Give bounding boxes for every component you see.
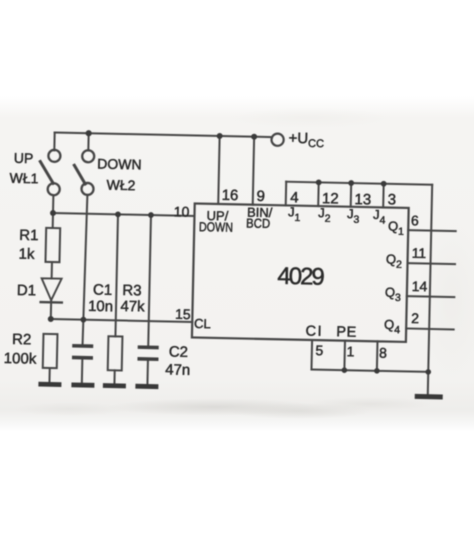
svg-text:9: 9 xyxy=(256,188,265,205)
op-amp U1 IC 4029 body xyxy=(192,203,409,341)
wire pin12 stub xyxy=(317,182,319,206)
switch WL2 bottom contact xyxy=(81,183,93,195)
switch WL2 top contact xyxy=(82,150,94,162)
ground R2 xyxy=(38,382,61,387)
wire DOWN switch to rail xyxy=(87,133,89,150)
wire Q4 output xyxy=(406,327,453,330)
node D1-CL junction xyxy=(48,316,54,322)
svg-text:PE: PE xyxy=(336,324,357,340)
wire bottom rail xyxy=(311,369,428,371)
switch WL1 lever xyxy=(40,162,54,184)
wire C2 to ground xyxy=(146,361,148,384)
svg-text:BCD: BCD xyxy=(246,215,270,230)
svg-text:13: 13 xyxy=(354,191,371,208)
node pin13-Jbar junction xyxy=(348,180,354,186)
wire rail to C2 xyxy=(148,215,151,345)
node C2-rail junction xyxy=(148,212,154,218)
svg-text:C2: C2 xyxy=(169,343,189,360)
wire pin8 stub xyxy=(376,341,379,370)
diode D1 triangle xyxy=(41,278,61,300)
svg-text:5: 5 xyxy=(315,342,323,358)
wire Q2 output xyxy=(408,262,455,265)
svg-text:4029: 4029 xyxy=(277,263,325,291)
capacitor C2 plates xyxy=(137,345,158,361)
node pin1-rail junction xyxy=(342,367,348,373)
wire pin9 to rail xyxy=(253,137,254,205)
wire top supply rail xyxy=(55,133,272,138)
svg-text:DOWN: DOWN xyxy=(97,156,142,173)
svg-text:WŁ2: WŁ2 xyxy=(106,177,135,194)
svg-text:J3: J3 xyxy=(347,206,360,226)
ground C1 xyxy=(71,382,94,387)
wire pin4 stub xyxy=(285,182,287,206)
capacitor C1 plates xyxy=(72,344,93,360)
svg-text:R3: R3 xyxy=(122,282,142,299)
wire pin13 stub xyxy=(350,183,352,207)
svg-text:10: 10 xyxy=(174,203,190,219)
ground right xyxy=(415,394,443,400)
wire D1 to CL rail xyxy=(50,301,52,319)
svg-text:+UCC: +UCC xyxy=(288,130,324,150)
svg-text:Q1: Q1 xyxy=(388,219,405,238)
svg-text:1k: 1k xyxy=(18,246,35,263)
wire DOWN switch to CL rail xyxy=(83,195,88,344)
node C1-CL junction xyxy=(80,317,86,323)
svg-text:Q3: Q3 xyxy=(385,285,402,304)
wire J input bar xyxy=(286,182,432,185)
svg-text:11: 11 xyxy=(412,245,427,261)
wire pin5 stub xyxy=(310,340,313,369)
resistor R3 xyxy=(108,336,123,370)
svg-text:CL: CL xyxy=(194,316,211,331)
node pin12-Jbar junction xyxy=(316,179,322,185)
wire R2 to ground xyxy=(48,368,50,382)
svg-text:3: 3 xyxy=(388,191,397,208)
svg-text:J2: J2 xyxy=(318,205,331,225)
svg-text:47k: 47k xyxy=(120,298,145,316)
svg-text:WŁ1: WŁ1 xyxy=(9,170,38,187)
wire J bar down right side xyxy=(428,185,432,372)
node UP-R1 junction xyxy=(50,210,56,216)
wire Q1 output xyxy=(408,229,455,232)
svg-text:J4: J4 xyxy=(373,207,386,227)
svg-text:16: 16 xyxy=(221,187,238,204)
wire UP switch to UP/DOWN rail xyxy=(52,195,54,213)
wire pin16 to rail xyxy=(218,136,219,204)
node pin16-rail junction xyxy=(217,133,223,139)
svg-text:DOWN: DOWN xyxy=(199,219,233,235)
wire R3 to ground xyxy=(113,370,115,383)
svg-text:Q4: Q4 xyxy=(384,317,401,336)
node pin9-rail junction xyxy=(251,134,257,140)
wire R1 to D1 xyxy=(51,262,53,278)
svg-text:UP: UP xyxy=(14,150,34,166)
svg-text:C1: C1 xyxy=(93,281,113,298)
svg-text:100k: 100k xyxy=(4,350,37,368)
svg-text:6: 6 xyxy=(411,212,419,228)
svg-text:Q2: Q2 xyxy=(386,252,403,271)
wire UP/DOWN rail to pin10 xyxy=(53,213,194,216)
wire pin3 stub xyxy=(382,184,384,208)
node R3-rail junction xyxy=(115,211,121,217)
ground C2 xyxy=(135,384,158,389)
wire rail to R3 xyxy=(115,214,118,336)
svg-text:47n: 47n xyxy=(165,361,190,379)
svg-text:R2: R2 xyxy=(12,331,32,348)
svg-text:CI: CI xyxy=(305,324,323,340)
svg-text:10n: 10n xyxy=(88,298,113,316)
svg-text:14: 14 xyxy=(412,278,428,294)
ground R3 xyxy=(103,383,126,388)
wire C1 to ground xyxy=(81,359,83,382)
resistor R2 xyxy=(43,334,58,368)
svg-text:2: 2 xyxy=(411,310,419,326)
wire CL rail to pin15 xyxy=(51,319,192,322)
switch WL1 bottom contact xyxy=(48,183,60,195)
wire pin1 stub xyxy=(343,341,346,370)
node DOWN-rail junction xyxy=(86,130,92,136)
diode D1 cathode bar xyxy=(41,301,62,304)
resistor R1 xyxy=(45,228,60,262)
svg-text:1: 1 xyxy=(346,343,354,359)
svg-text:15: 15 xyxy=(175,306,191,322)
svg-text:8: 8 xyxy=(379,345,387,361)
switch WL1 top contact xyxy=(48,150,60,162)
svg-text:D1: D1 xyxy=(17,282,37,299)
terminal +Ucc xyxy=(271,133,283,145)
node right-vertical rail junction xyxy=(425,369,431,375)
node pin8-rail junction xyxy=(374,368,380,374)
switch WL2 lever xyxy=(74,165,86,184)
wire Q3 output xyxy=(407,295,454,298)
svg-text:J1: J1 xyxy=(288,204,301,224)
svg-text:R1: R1 xyxy=(19,227,39,244)
wire rail to R1 xyxy=(52,213,54,228)
node pin3-Jbar junction xyxy=(381,181,387,187)
wire UP switch to rail xyxy=(53,133,55,151)
wire rail to right ground xyxy=(427,372,429,394)
